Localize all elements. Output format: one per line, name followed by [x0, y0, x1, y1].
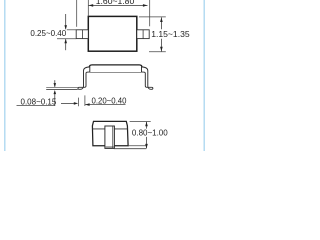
leader underline of 0.20~0.40 with arrowhead	[85, 104, 125, 106]
svg-text:0.80~1.00: 0.80~1.00	[132, 129, 168, 138]
extension line foot top to left	[46, 86, 77, 88]
lower arrow of 0.80~1.00	[146, 137, 148, 149]
end view seating baseline	[114, 148, 146, 150]
left arrow of 0.20~0.40	[61, 102, 74, 104]
table cell left border	[4, 0, 6, 151]
upper arrow of 0.80~1.00	[146, 122, 148, 129]
dimension line 1.15~1.35	[160, 17, 162, 29]
svg-text:0.25~0.40: 0.25~0.40	[30, 29, 66, 38]
end view tab gray bottom	[105, 146, 114, 148]
extension line foot bottom to left	[46, 88, 77, 90]
top view left lead tab	[76, 30, 88, 39]
top view right lead tab inner line	[142, 30, 144, 39]
side view body	[89, 65, 142, 72]
extension line foot toe down	[77, 98, 79, 107]
svg-text:0.08~0.15: 0.08~0.15	[21, 97, 57, 106]
extension line body top right	[139, 16, 166, 18]
extension line tab top to left	[67, 29, 76, 31]
extension line right tab outer edge	[149, 0, 151, 26]
arrowhead bottom of 1.15~1.35	[160, 47, 163, 52]
side view right lead	[142, 67, 153, 89]
end view shoulder line	[92, 128, 127, 130]
extension line body left edge	[87, 0, 89, 16]
extension line body bottom right	[149, 51, 166, 53]
arrowhead right of 1.60~1.80	[143, 4, 148, 7]
underline leader of 0.08~0.15	[17, 105, 56, 107]
end view body	[92, 121, 128, 145]
extension line tab bottom to left (underline of 0.25~0.40)	[57, 38, 76, 40]
lower arrow of 0.08~0.15 with leader	[54, 93, 56, 105]
top view body	[88, 16, 137, 51]
side view body bottom line	[87, 71, 145, 73]
top view right lead tab	[137, 30, 149, 39]
arrowhead top of 1.15~1.35	[160, 17, 163, 22]
extension line lead outer down	[84, 95, 86, 106]
end view body bottom extension line	[128, 145, 146, 147]
end view tab inner vertical line	[112, 126, 114, 148]
side view left lead	[78, 67, 90, 89]
top view left lead tab inner line	[82, 30, 84, 39]
dimension line 1.60~1.80	[89, 4, 148, 6]
svg-text:1.60~1.80: 1.60~1.80	[96, 0, 135, 6]
svg-text:0.20~0.40: 0.20~0.40	[92, 97, 128, 106]
table cell right border	[203, 0, 205, 151]
lower arrow of 0.25~0.40	[65, 39, 67, 50]
arrowhead left of 1.60~1.80	[89, 4, 94, 7]
svg-text:1.15~1.35: 1.15~1.35	[151, 29, 190, 39]
extension line left tab outer edge	[76, 0, 78, 27]
upper arrow of 0.25~0.40	[65, 14, 67, 29]
end view center lead tab	[105, 126, 115, 148]
extension line end view top right	[130, 120, 151, 122]
upper arrow of 0.08~0.15	[54, 80, 56, 87]
